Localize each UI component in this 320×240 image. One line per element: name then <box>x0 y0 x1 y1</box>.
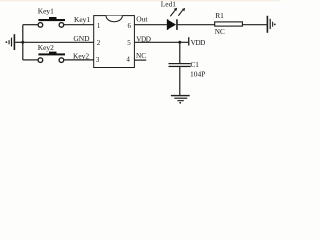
svg-text:3: 3 <box>96 56 100 64</box>
svg-text:GND: GND <box>73 34 90 43</box>
svg-text:C1: C1 <box>191 61 200 69</box>
svg-text:Key2: Key2 <box>73 52 89 61</box>
svg-text:5: 5 <box>127 39 131 47</box>
svg-text:Out: Out <box>136 14 148 23</box>
svg-text:Led1: Led1 <box>161 0 176 9</box>
svg-text:104P: 104P <box>190 70 205 79</box>
svg-text:Key2: Key2 <box>38 43 54 52</box>
svg-text:2: 2 <box>97 39 101 47</box>
svg-text:NC: NC <box>215 28 225 36</box>
svg-text:R1: R1 <box>215 11 224 20</box>
svg-text:VDD: VDD <box>191 39 206 47</box>
svg-text:4: 4 <box>126 56 130 64</box>
svg-text:6: 6 <box>128 22 132 30</box>
svg-text:Key1: Key1 <box>38 7 54 16</box>
svg-text:NC: NC <box>136 52 146 60</box>
svg-text:1: 1 <box>97 22 101 30</box>
svg-text:Key1: Key1 <box>74 15 90 24</box>
